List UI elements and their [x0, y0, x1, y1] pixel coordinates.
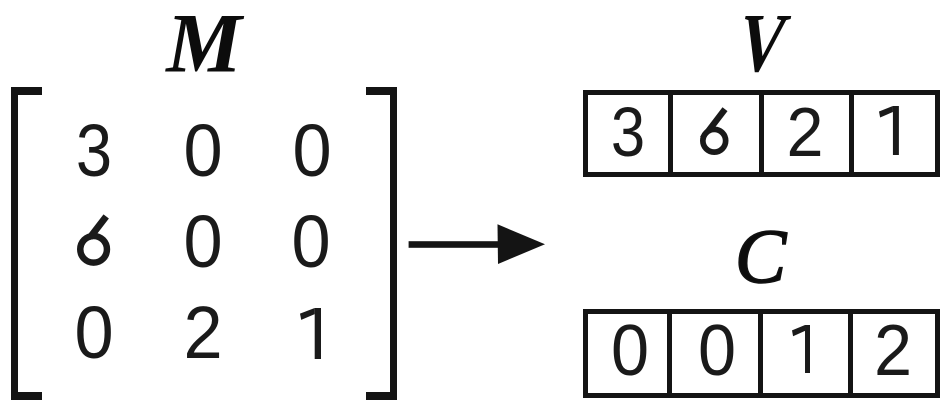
matrix entry (3,2) value 2: [183, 296, 222, 370]
matrix entry (3,3) value 1: [300, 308, 321, 359]
array C cell 1 value 0: [610, 315, 648, 387]
array V cell 4 value 1: [879, 106, 899, 156]
array C divider 1: [667, 311, 672, 396]
array V divider 3: [849, 92, 854, 175]
array C cell 4 value 2: [873, 315, 911, 387]
matrix left bracket bottom arm: [11, 392, 42, 400]
matrix M label: [166, 2, 242, 87]
matrix left bracket vertical: [11, 87, 18, 400]
matrix entry (2,2) value 0: [183, 205, 222, 279]
matrix entry (1,2) value 0: [183, 114, 222, 188]
matrix entry (3,1) value 0: [74, 296, 113, 370]
array C cell 3 value 1: [792, 325, 811, 374]
matrix entry (2,3) value 0: [291, 205, 330, 279]
array C divider 3: [848, 311, 853, 396]
array V divider 2: [759, 92, 764, 175]
array C divider 2: [758, 311, 763, 396]
array C label: [735, 218, 786, 295]
array C box: [583, 309, 940, 398]
matrix left bracket top arm: [11, 87, 42, 95]
matrix right bracket top arm: [366, 87, 397, 95]
array C cell 2 value 0: [697, 315, 735, 387]
matrix entry (2,1) value 6: [77, 214, 110, 266]
array V label: [736, 2, 787, 86]
array V box: [583, 90, 940, 177]
array V cell 2 value 6: [700, 107, 729, 155]
array V cell 3 value 2: [787, 97, 824, 167]
matrix right bracket vertical: [390, 87, 397, 400]
arrow from matrix to arrays: [400, 215, 555, 275]
array V cell 1 value 3: [611, 97, 645, 167]
matrix entry (1,3) value 0: [292, 114, 331, 188]
array V divider 1: [668, 92, 673, 175]
matrix entry (1,1) value 3: [76, 114, 112, 188]
matrix right bracket bottom arm: [366, 392, 397, 400]
